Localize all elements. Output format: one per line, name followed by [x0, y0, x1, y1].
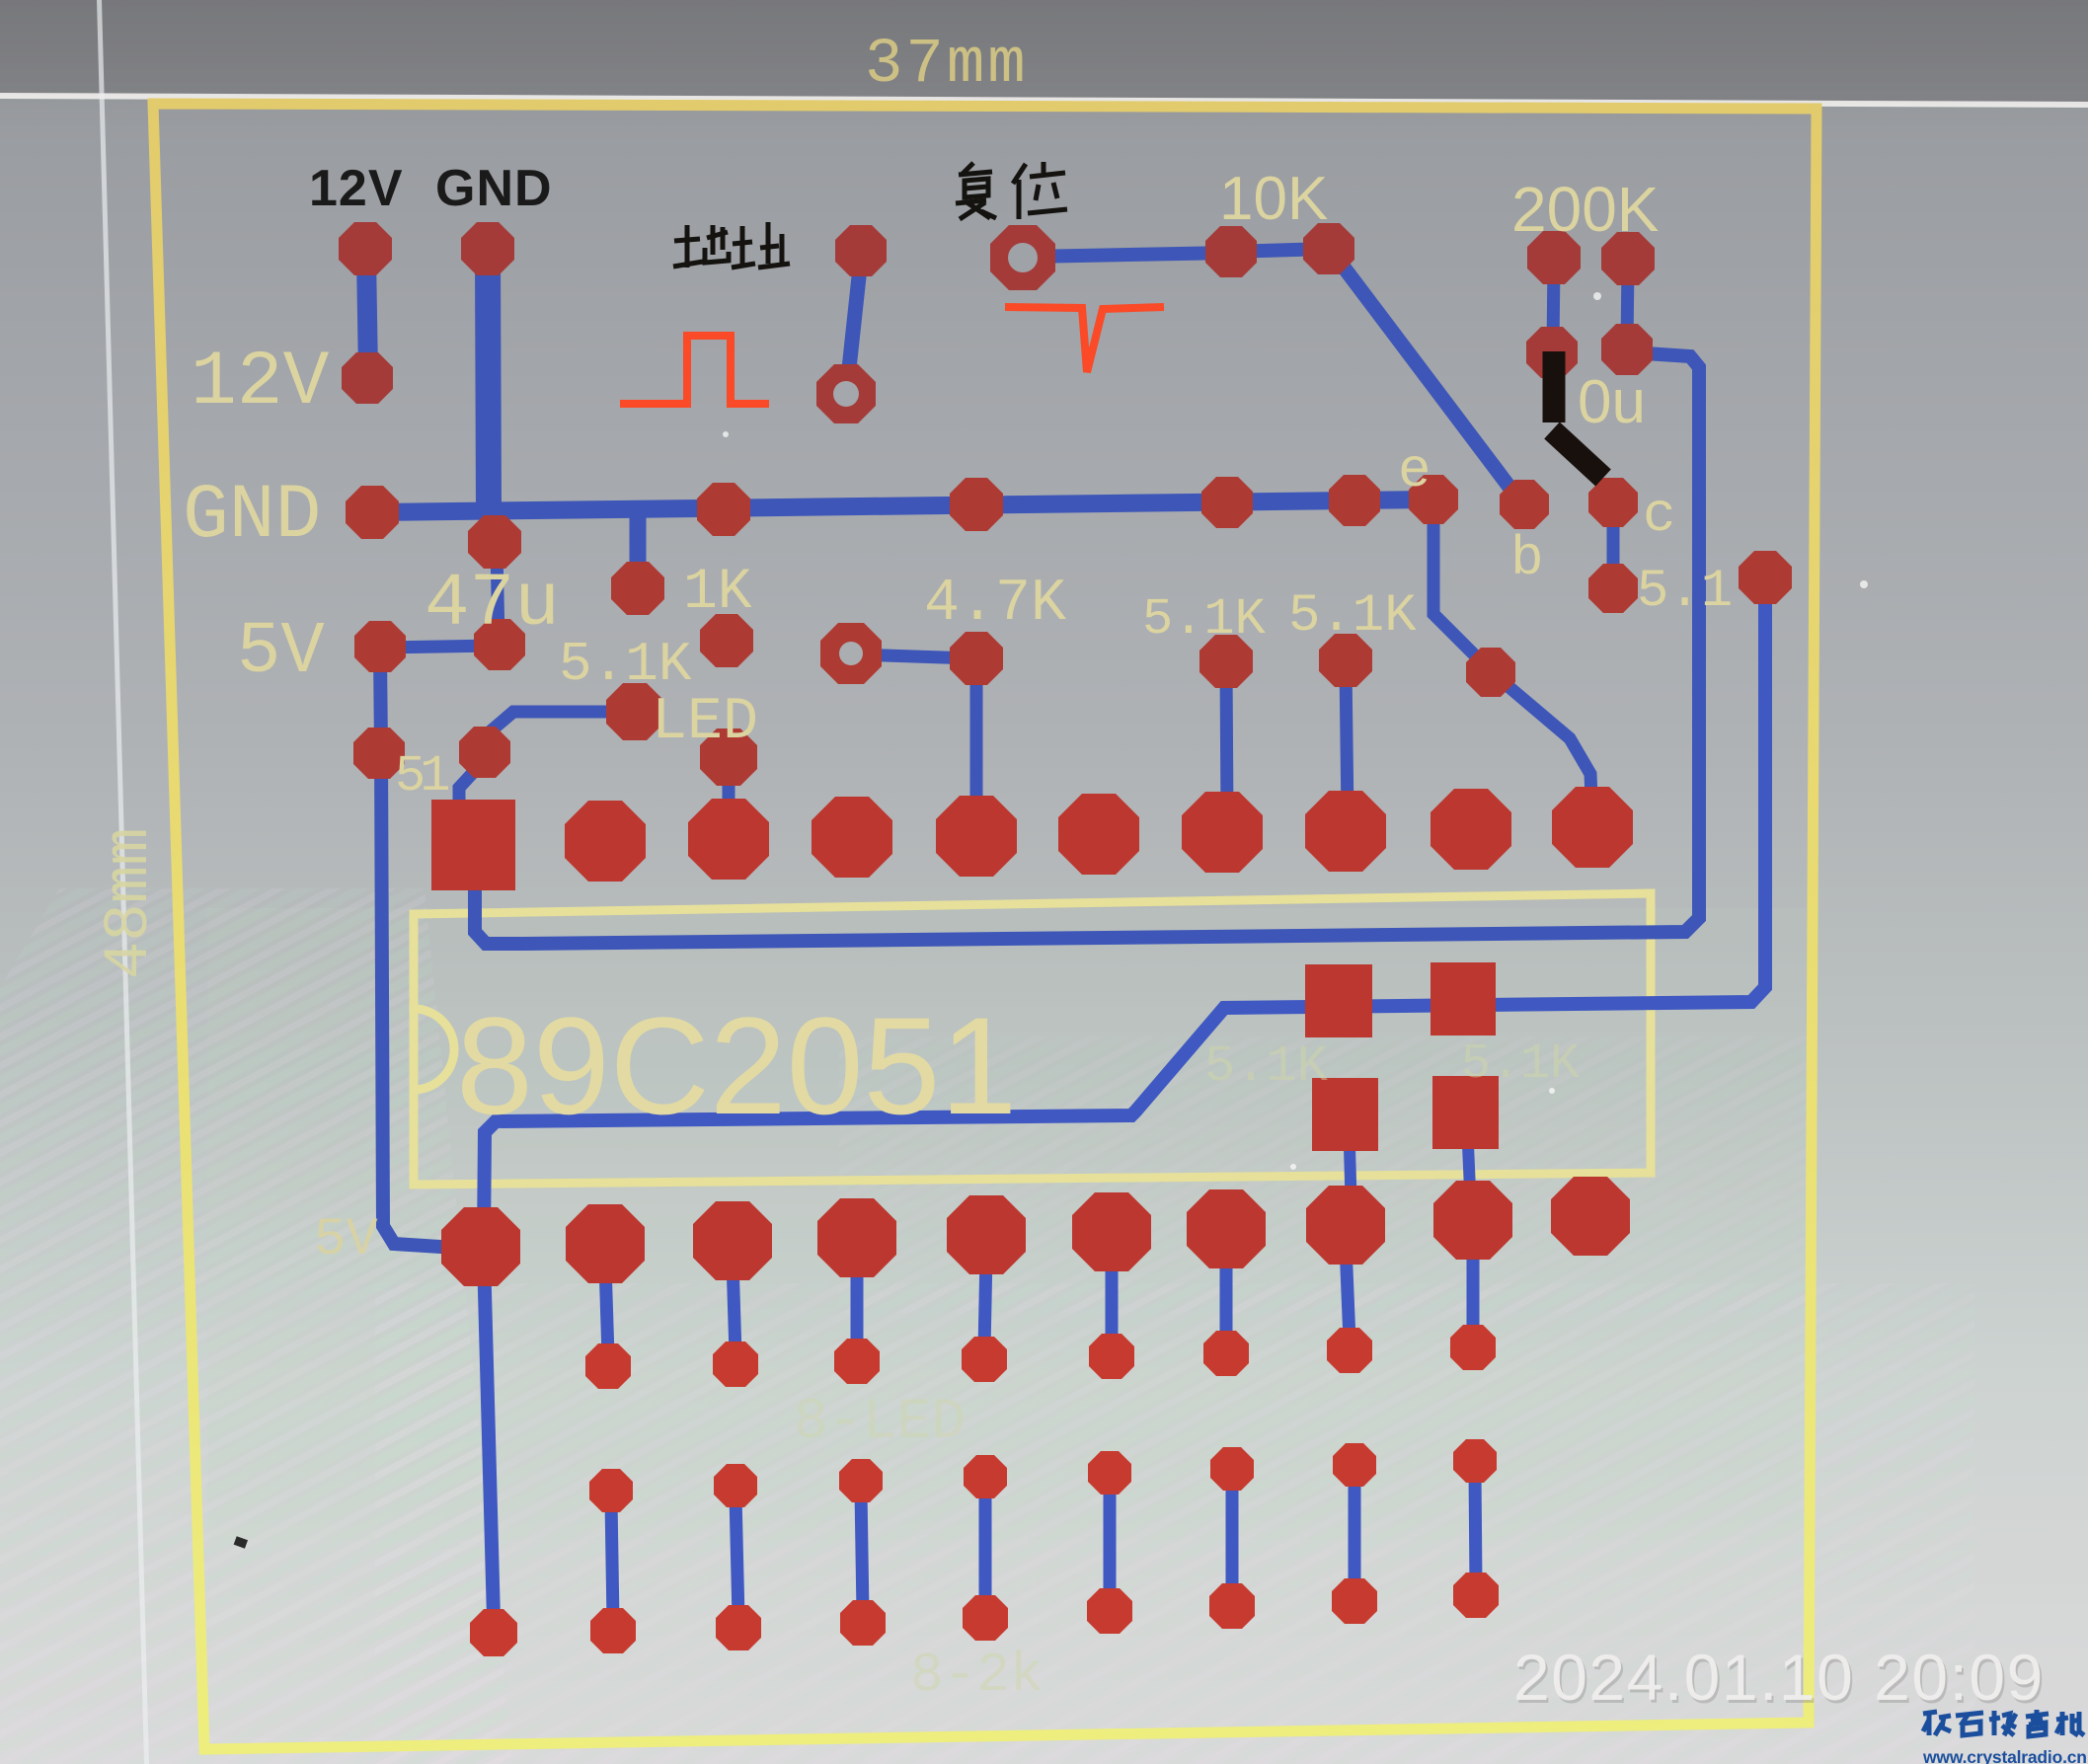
- wire led1242: [1220, 1249, 1233, 1343]
- pad 51 right: [459, 727, 510, 778]
- wire 2k1494: [1475, 1471, 1476, 1585]
- wire r-ic2: [723, 762, 735, 831]
- pad IC bottom 7: [1187, 1189, 1266, 1268]
- pad 5.1 right: [1739, 551, 1792, 604]
- pad 2k top 7: [1333, 1443, 1376, 1487]
- dust: [1593, 292, 1601, 300]
- pad IC pin1 square: [431, 800, 515, 890]
- svg-text:c: c: [1643, 484, 1676, 547]
- pad IC bottom 8: [1306, 1186, 1385, 1265]
- pad gnd bus 2: [697, 483, 750, 536]
- pad smd 5.1K a2: [1431, 962, 1496, 1035]
- svg-text:5.1K: 5.1K: [1461, 1036, 1580, 1093]
- pad 2k bottom 5: [1087, 1588, 1132, 1634]
- pad collector 2: [1588, 564, 1638, 613]
- svg-text:47u: 47u: [425, 562, 560, 647]
- pad 10u minus: [1601, 324, 1653, 375]
- pad above ic2: [700, 729, 757, 786]
- pad 47u top: [468, 515, 521, 569]
- wire 47u stub: [497, 549, 499, 640]
- wire 12V stub: [366, 257, 368, 373]
- svg-text:LED: LED: [652, 689, 758, 756]
- pad 4.7K right: [950, 632, 1003, 685]
- svg-text:5.1K: 5.1K: [1288, 586, 1417, 647]
- pad 2k top 4: [964, 1455, 1007, 1498]
- wire 4.7K-ic: [970, 663, 983, 825]
- svg-text:5.1K: 5.1K: [1142, 590, 1267, 649]
- pad led small 8: [1450, 1325, 1496, 1370]
- pad 2k top 3: [839, 1459, 883, 1502]
- wire 10K link: [1231, 249, 1329, 252]
- pad col1 bottom: [470, 1609, 517, 1656]
- wire 4.7K link: [855, 654, 972, 658]
- pad 47u bottom: [474, 619, 525, 670]
- svg-text:200K: 200K: [1511, 174, 1659, 245]
- svg-text:0u: 0u: [1578, 368, 1646, 436]
- pad 12V bottom: [342, 352, 393, 404]
- svg-text:8-LED: 8-LED: [794, 1391, 966, 1455]
- via 4.7K ring: [820, 623, 882, 684]
- pad 2k bottom 1: [590, 1608, 636, 1653]
- wire led742: [733, 1261, 735, 1354]
- pad 2k top 8: [1453, 1439, 1497, 1483]
- wire 2k1248: [1226, 1479, 1239, 1596]
- annotation reset pulse waveform: [1005, 307, 1164, 372]
- wire col1 down: [484, 1256, 494, 1619]
- pad gnd bus 4: [1201, 477, 1253, 528]
- svg-text:89C2051: 89C2051: [456, 988, 1017, 1143]
- pad r51k mid: [700, 614, 753, 667]
- pad 2k top 5: [1088, 1451, 1131, 1495]
- pad gnd bus 5: [1329, 475, 1380, 526]
- wire 2k745: [735, 1496, 738, 1618]
- svg-text:4.7K: 4.7K: [924, 571, 1066, 638]
- wire 2k1372: [1349, 1475, 1361, 1591]
- pad IC top 2: [565, 801, 646, 882]
- label fuwei (reset) char fu: [963, 163, 973, 174]
- pad 200K a: [1527, 231, 1581, 284]
- pad led small 5: [1089, 1334, 1134, 1379]
- wire 200K stub a: [1553, 263, 1554, 347]
- pad IC bottom 6: [1072, 1192, 1151, 1271]
- wire reset-10K: [1029, 253, 1231, 257]
- pad 2k bottom 8: [1453, 1572, 1499, 1618]
- pad 2k bottom 6: [1209, 1583, 1255, 1629]
- board outline (37mm x 48mm): [153, 104, 1817, 1749]
- pad 200K b: [1601, 232, 1655, 285]
- svg-text:37mm: 37mm: [865, 30, 1029, 101]
- pad IC bottom 5: [947, 1195, 1026, 1274]
- pad 2k top 1: [589, 1469, 633, 1512]
- wire 2k998: [979, 1487, 992, 1608]
- watermark kuangshi shouyinji: [1923, 1712, 1937, 1714]
- pad 10u plus: [1526, 327, 1578, 378]
- wire outer L: [484, 584, 1765, 1242]
- pad 2k bottom 4: [963, 1595, 1008, 1641]
- pad IC top 6: [1058, 794, 1139, 875]
- svg-text:8-2k: 8-2k: [910, 1644, 1043, 1707]
- wire 200K stub b: [1627, 264, 1628, 345]
- wire c stub: [1607, 508, 1620, 584]
- wire 5V rail: [380, 653, 456, 1248]
- pad IC top 9: [1431, 789, 1511, 870]
- wire led613: [605, 1264, 608, 1356]
- pad IC top 4: [812, 797, 892, 878]
- screen bezel horizontal line: [0, 93, 2088, 108]
- pad 5V: [354, 621, 406, 672]
- wire 10K diag: [1333, 253, 1520, 501]
- wire sq5 stub: [1468, 1145, 1471, 1212]
- label 48mm: [95, 827, 166, 979]
- pad IC top 3: [688, 799, 769, 880]
- pad collector c: [1588, 478, 1638, 527]
- pad 2k bottom 2: [716, 1605, 761, 1650]
- pad 2k top 6: [1210, 1447, 1254, 1491]
- svg-text:2024.01.10 20:09: 2024.01.10 20:09: [1513, 1641, 2045, 1714]
- annotation address pulse waveform: [620, 336, 769, 404]
- pad IC bottom 10: [1551, 1177, 1630, 1256]
- label dizhi (address) char di: [685, 225, 690, 268]
- wire 51-square: [459, 762, 483, 804]
- via address ring: [816, 364, 876, 423]
- pad led small 4: [962, 1337, 1007, 1382]
- pad led small 2: [713, 1342, 758, 1387]
- pad IC top 7: [1182, 792, 1263, 873]
- pad 2k bottom 7: [1332, 1578, 1377, 1624]
- pad IC top 10: [1552, 787, 1633, 868]
- svg-text:5V: 5V: [237, 611, 325, 694]
- pad IC top 5: [936, 796, 1017, 877]
- wire inner L: [475, 352, 1699, 944]
- pad 2k top 2: [714, 1464, 757, 1507]
- svg-text:1K: 1K: [683, 561, 752, 625]
- wire led1363: [1346, 1245, 1350, 1341]
- IC U1 89C2051 outline box: [414, 893, 1651, 1185]
- pad IC bottom 4: [817, 1198, 896, 1277]
- svg-text:b: b: [1510, 527, 1544, 590]
- pad IC bottom 9: [1433, 1181, 1512, 1260]
- pad 51k2 top: [1319, 634, 1372, 687]
- svg-text:5.1K: 5.1K: [1204, 1037, 1329, 1096]
- wire e diag: [1433, 505, 1592, 823]
- pad IC bottom 2: [566, 1204, 645, 1283]
- label fuwei char wei: [1013, 164, 1026, 184]
- svg-text:5.1: 5.1: [1637, 562, 1733, 622]
- svg-text:12V: 12V: [191, 340, 330, 426]
- pad LED: [606, 683, 663, 740]
- svg-text:www.crystalradio.cn: www.crystalradio.cn: [1922, 1747, 2087, 1764]
- svg-text:12V: 12V: [309, 160, 404, 217]
- wire 2k619: [611, 1500, 613, 1621]
- pad 51 left: [353, 728, 405, 779]
- pad led small 6: [1203, 1331, 1249, 1376]
- wire led1126: [1106, 1252, 1119, 1346]
- pad 51k1 top: [1199, 635, 1253, 688]
- wire LED link: [486, 712, 630, 748]
- label dizhi char zhi: [740, 226, 745, 268]
- wire led1492: [1467, 1240, 1480, 1338]
- pad reset ring: [990, 225, 1055, 290]
- pad led small 7: [1327, 1328, 1372, 1373]
- wire 2k872: [861, 1491, 863, 1613]
- wire 51k2 down: [1346, 665, 1348, 817]
- pad led small 1: [585, 1343, 631, 1389]
- wire led868: [851, 1258, 864, 1351]
- svg-text:5.1K: 5.1K: [559, 633, 692, 696]
- wire GND bus: [373, 499, 1433, 512]
- svg-text:5V: 5V: [314, 1210, 378, 1270]
- svg-text:GND: GND: [435, 160, 553, 217]
- pad IC bottom 1: [441, 1207, 520, 1286]
- pad smd 5.1K b2: [1432, 1076, 1499, 1149]
- wire 47u-5V: [383, 646, 496, 648]
- svg-text:10K: 10K: [1219, 165, 1328, 233]
- pad IC bottom 3: [693, 1201, 772, 1280]
- wire addr stub: [847, 259, 861, 387]
- svg-text:GND: GND: [183, 473, 321, 560]
- pad 10K b: [1303, 223, 1354, 274]
- wire GND down: [488, 255, 489, 509]
- screen bezel vertical line: [97, 0, 149, 1764]
- pad diag mid: [1466, 648, 1515, 697]
- dirt speck: [234, 1536, 248, 1549]
- pad gnd bus 3: [950, 478, 1003, 531]
- pad address: [835, 225, 887, 276]
- pad 12V top: [339, 222, 392, 275]
- pad GND top: [461, 222, 514, 275]
- pad 1K: [611, 562, 664, 615]
- wire 1K stub: [630, 511, 647, 584]
- pad emitter e: [1409, 475, 1458, 524]
- svg-text:e: e: [1398, 439, 1431, 502]
- svg-text:48mm: 48mm: [95, 827, 166, 979]
- pad gnd bus 1: [346, 486, 399, 539]
- wire 51k1 down: [1226, 666, 1227, 819]
- pad smd 5.1K b1: [1312, 1078, 1378, 1151]
- pad led small 3: [834, 1339, 880, 1384]
- pad smd 5.1K a1: [1305, 964, 1372, 1037]
- wire sq4 stub: [1350, 1147, 1352, 1216]
- pad base b: [1500, 480, 1549, 529]
- wire 2k1124: [1104, 1483, 1117, 1601]
- svg-text:51: 51: [395, 747, 448, 805]
- pad 10K a: [1205, 226, 1257, 277]
- wire led999: [984, 1255, 986, 1349]
- annotation black marker stroke: [1543, 351, 1566, 422]
- pad IC top 8: [1305, 791, 1386, 872]
- pad 2k bottom 3: [840, 1600, 886, 1646]
